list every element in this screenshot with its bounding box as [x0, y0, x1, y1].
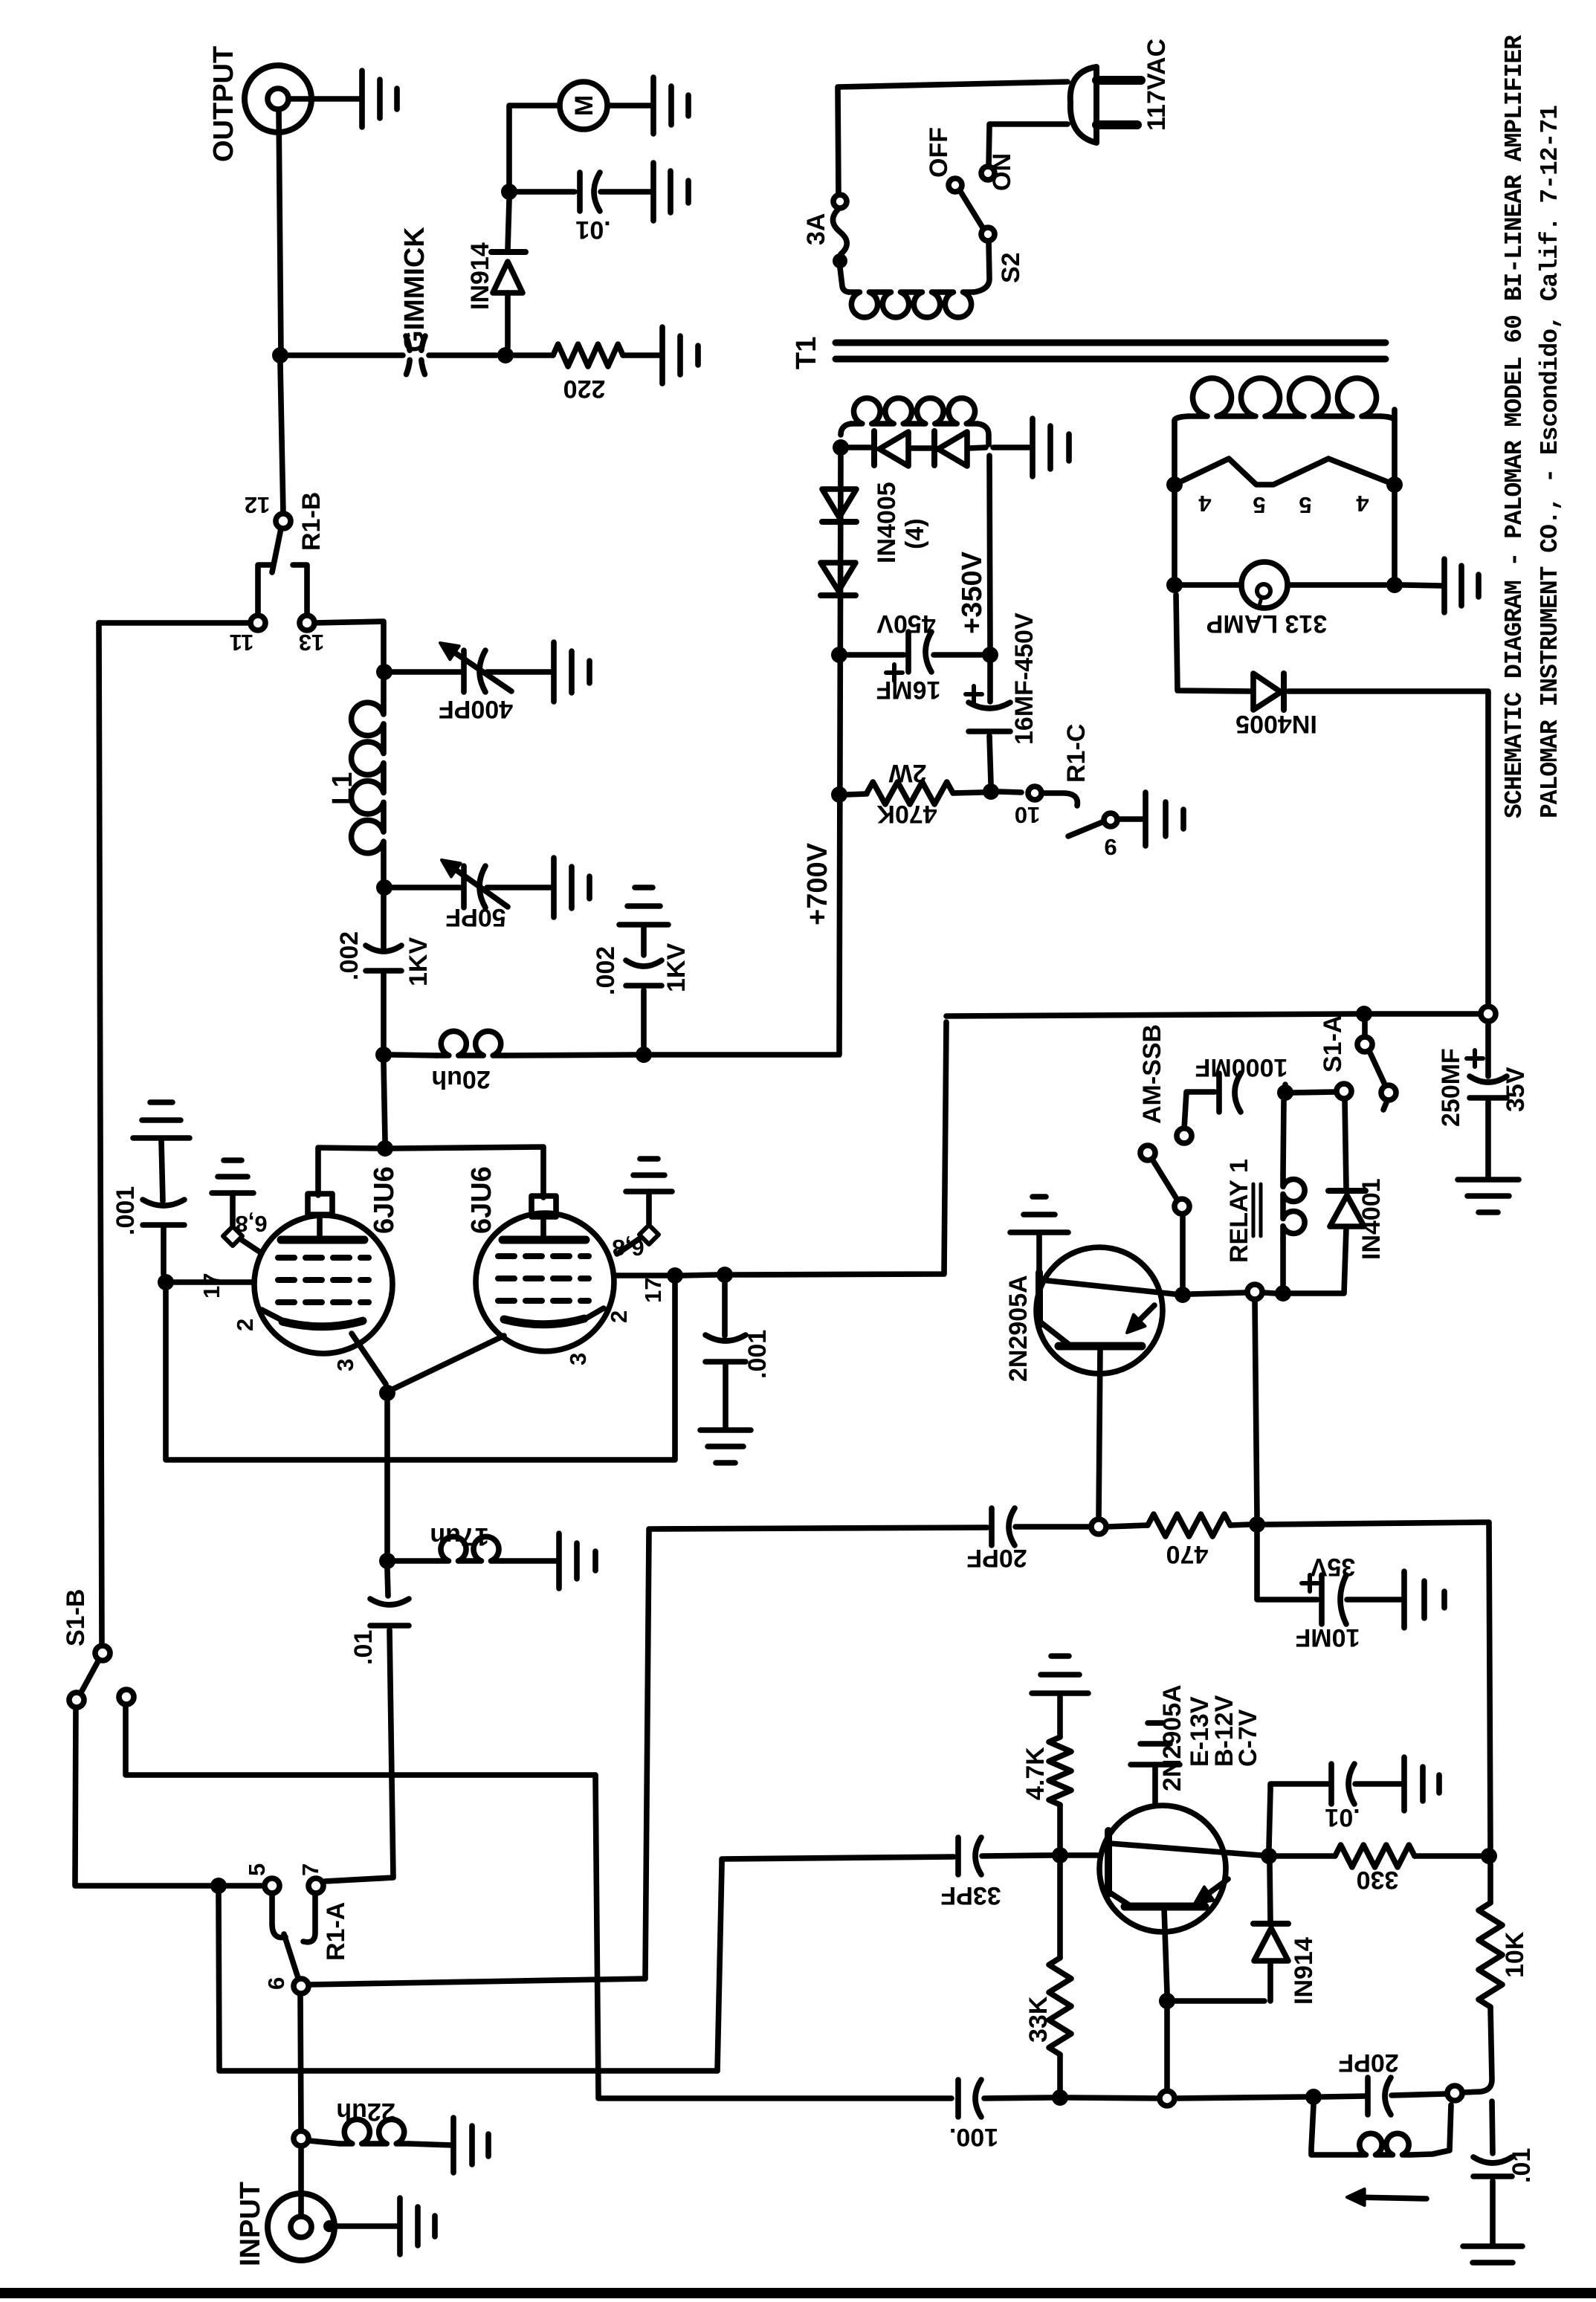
capacitor .002 1KV (right)	[626, 983, 662, 989]
wire node P to Q2 collector circle	[1068, 2098, 1158, 2098]
node D junction	[376, 664, 392, 680]
svg-text:470: 470	[1166, 1540, 1209, 1568]
diode IN4005 D3	[822, 489, 856, 517]
svg-text:7: 7	[297, 1863, 323, 1876]
connector 117VAC plug	[1070, 67, 1096, 143]
Q2 base bar	[1105, 1831, 1112, 1894]
svg-text:1KV: 1KV	[662, 943, 691, 992]
svg-text:+700V: +700V	[802, 842, 833, 925]
lamp 313	[1241, 562, 1288, 608]
wire contact 11 to left rail	[99, 620, 251, 626]
Q2 emitter	[1110, 1843, 1261, 1855]
wire INPUT jack shell to ground	[334, 2223, 398, 2229]
svg-text:IN914: IN914	[1290, 1937, 1318, 2005]
wire node G up to .002 right cap	[641, 990, 647, 1047]
wire node C up to meter corner	[509, 106, 558, 184]
capacitor .001 (left)	[143, 1222, 184, 1228]
wire node AC to S1-A throw (already) and node AB down	[1282, 1084, 1288, 1093]
node AG junction (cap1 row left)	[831, 647, 847, 663]
wire 17uh to ground	[503, 1558, 558, 1564]
heater winding nodes	[1166, 476, 1183, 493]
svg-text:33K: 33K	[1024, 1996, 1053, 2043]
svg-text:2: 2	[232, 1319, 258, 1331]
wire AM-SSB lower contact to node Z	[1180, 1215, 1186, 1287]
meter M1	[560, 82, 607, 129]
wire 20PF bottom to node S	[1392, 2094, 1445, 2095]
switch R1-B lever	[272, 528, 281, 572]
switch S1-A throw contact	[1337, 1084, 1351, 1099]
node L junction (cathodes)	[379, 1385, 395, 1401]
wire 33PF to node T	[982, 1855, 1052, 1856]
svg-text:10K: 10K	[1501, 1931, 1529, 1978]
svg-text:9: 9	[1104, 834, 1117, 860]
svg-text:35V: 35V	[1310, 1553, 1355, 1581]
capacitor 250MF 35V	[1485, 1022, 1491, 1076]
svg-text:.001: .001	[112, 1186, 140, 1235]
switch R1-A contact 6	[294, 1979, 308, 1994]
wire S1-B NC contact down and right (to bottom rail)	[126, 1704, 595, 1775]
node Z junction (Q1 emitter rail)	[1175, 1287, 1191, 1303]
node T junction (Q2 base)	[1052, 1847, 1068, 1863]
capacitor 1000MF	[1216, 1073, 1222, 1112]
switch S2 ON contact	[981, 166, 995, 180]
switch R1-A contact 7 stem	[303, 1894, 315, 1942]
tube V1 cathode	[282, 1321, 363, 1327]
svg-text:R1-A: R1-A	[322, 1902, 350, 1961]
ground at .01 bottom	[1463, 2246, 1522, 2263]
wire +350V riser	[989, 456, 990, 647]
T1 HV secondary coil	[841, 424, 851, 435]
wire node S down to .01 bottom cap	[1492, 2101, 1493, 2153]
wire bottom-left rail down to ground rail	[595, 1775, 952, 2098]
wire 250MF to ground	[1485, 1102, 1491, 1177]
resistor 4.7K	[1049, 1737, 1071, 1805]
svg-text:ON: ON	[988, 153, 1016, 191]
relay core lines	[1253, 1184, 1261, 1236]
svg-text:.002: .002	[335, 931, 364, 980]
wire contact 6 down to input node	[300, 1994, 301, 2130]
node G junction	[636, 1047, 652, 1063]
node F junction	[375, 1047, 392, 1063]
inductor 17uh	[437, 1536, 503, 1561]
tube V2 pin 2 stub	[584, 1308, 604, 1319]
wire node E down to .002 cap	[381, 896, 387, 949]
inductor 20uh	[436, 1031, 505, 1055]
tube V1 plate	[281, 1236, 364, 1244]
svg-text:5: 5	[1299, 492, 1311, 518]
capacitor .01 (cathode)	[370, 1623, 409, 1629]
node AI junction (470K right)	[983, 783, 999, 800]
variable inductor (tank coil)	[1311, 2105, 1357, 2155]
svg-text:GIMMICK: GIMMICK	[399, 227, 430, 352]
node K junction	[717, 1267, 733, 1283]
wire 330 to node W	[1415, 1853, 1481, 1859]
svg-text:IN914: IN914	[466, 242, 494, 310]
wire heater right vertical	[1392, 410, 1398, 577]
ground at 400PF	[554, 642, 589, 702]
wire meter to ground	[608, 103, 653, 109]
svg-text:R1-C: R1-C	[1062, 724, 1091, 783]
capacitor .002 1KV (left)	[366, 968, 401, 974]
svg-text:3: 3	[332, 1359, 358, 1371]
ground at meter	[653, 77, 688, 134]
switch S1-B thrown contact	[69, 1692, 84, 1707]
capacitor 20PF (Q1 collector)	[989, 1508, 995, 1545]
capacitor .001 (right)	[705, 1359, 746, 1365]
node O input tee	[294, 2131, 308, 2146]
wire .002 right to ground	[641, 926, 647, 955]
switch AM-SSB upper contact	[1177, 1128, 1192, 1143]
tube V2 cathode	[504, 1319, 584, 1325]
svg-text:4: 4	[1198, 491, 1212, 517]
ground at 10MF	[1404, 1571, 1444, 1628]
switch S2 lever	[960, 190, 983, 229]
Q1 emitter	[1041, 1280, 1175, 1294]
capacitor 16MF 450V (first)	[905, 632, 911, 672]
switch R1-B contact 11 stem	[258, 565, 272, 615]
capacitor .01 (Q2 emitter)	[1328, 1764, 1334, 1804]
wire OUTPUT jack to ground	[288, 96, 361, 102]
tube V2 grids	[498, 1256, 589, 1301]
scan edge at bottom	[0, 2288, 1596, 2298]
svg-text:OFF: OFF	[925, 127, 953, 178]
svg-text:R1-B: R1-B	[297, 492, 326, 551]
wire .001 to ground	[161, 1140, 163, 1201]
svg-text:17: 17	[640, 1278, 666, 1303]
wire node D to 400PF	[392, 669, 462, 675]
diode IN4005 D1	[871, 431, 877, 465]
wire heater left vertical	[1172, 421, 1177, 577]
capacitor 33PF	[955, 1837, 961, 1875]
switch S1-A pole	[1381, 1085, 1396, 1100]
wire node V to 330	[1277, 1853, 1335, 1859]
svg-text:M: M	[570, 95, 598, 116]
wire .001 right to ground	[723, 1365, 728, 1429]
svg-text:17: 17	[198, 1273, 224, 1299]
svg-text:SCHEMATIC DIAGRAM - PALOMAR MO: SCHEMATIC DIAGRAM - PALOMAR MODEL 60 BI-…	[1501, 35, 1528, 818]
wire V1 grid pin 17	[174, 1279, 254, 1285]
node AD junction (S1-A common)	[1356, 1006, 1372, 1022]
diode IN4005 D2	[931, 431, 937, 465]
node X open (Q1 collector)	[1091, 1519, 1106, 1534]
capacitor .01 (meter)	[577, 172, 583, 211]
wire 10K down to node S	[1464, 2007, 1492, 2092]
node AC junction (relay top)	[1277, 1084, 1293, 1101]
svg-text:3: 3	[565, 1353, 591, 1365]
wire 470 to node Y	[1230, 1525, 1249, 1525]
wire node J to node K	[683, 1275, 717, 1276]
switch R1-B contact 13 stem	[293, 565, 307, 615]
svg-text:4: 4	[1356, 491, 1369, 517]
svg-text:100.: 100.	[949, 2123, 998, 2151]
Q2 emitter arrow	[1200, 1879, 1228, 1900]
capacitor .01 (bottom right)	[1473, 2173, 1512, 2179]
switch R1-C contact 10	[1028, 786, 1041, 800]
node AE open (250MF node)	[1481, 1006, 1496, 1021]
resistor 33K	[1049, 1958, 1071, 2054]
svg-text:(4): (4)	[901, 518, 929, 549]
switch R1-A contact 5	[265, 1878, 280, 1893]
svg-text:PALOMAR INSTRUMENT CO., - Esco: PALOMAR INSTRUMENT CO., - Escondido, Cal…	[1537, 106, 1564, 818]
svg-text:IN4005: IN4005	[1235, 710, 1317, 738]
connector J2 OUTPUT jack	[245, 65, 311, 132]
svg-text:IN4001: IN4001	[1357, 1178, 1386, 1260]
svg-text:6JU6: 6JU6	[369, 1166, 400, 1234]
wire node Y right and down to node W	[1265, 1522, 1490, 1848]
heater winding coil	[1175, 416, 1188, 421]
svg-text:INPUT: INPUT	[235, 2182, 266, 2266]
inductor L1	[352, 699, 384, 856]
node AA open (rail to 470)	[1247, 1284, 1262, 1299]
svg-text:5: 5	[244, 1863, 270, 1876]
node P junction (33K bottom)	[1052, 2089, 1068, 2106]
svg-text:.01: .01	[1508, 2148, 1536, 2183]
wire 50PF to ground	[487, 885, 553, 890]
transformer T1 core	[836, 340, 1386, 346]
svg-text:11: 11	[230, 630, 254, 656]
switch AM-SSB lever	[1151, 1158, 1177, 1199]
ground at 22uh	[453, 2118, 488, 2173]
heater resistance wire 4-5-5-4	[1175, 459, 1395, 485]
wire contact 6 right to amplifier	[309, 1979, 645, 1985]
wire up to 20PF line	[645, 1527, 987, 1979]
capacitor 100 (bottom rail)	[955, 2080, 961, 2117]
wire node H to tube V1 plate cap	[318, 1148, 377, 1195]
node S open (tank right)	[1447, 2086, 1462, 2101]
node M junction	[379, 1553, 395, 1569]
svg-text:16MF: 16MF	[876, 676, 941, 704]
wire node Y up to relay rail	[1255, 1300, 1257, 1516]
capacitor 16MF-450V (second)	[987, 663, 993, 702]
switch R1-B contact 12	[276, 514, 291, 528]
svg-text:1000MF: 1000MF	[1195, 1053, 1288, 1082]
node A junction	[272, 347, 288, 363]
switch S1-A common contact	[1357, 1037, 1372, 1052]
transistor Q1 2N2905A	[1036, 1247, 1163, 1374]
wire node C to .01 cap	[517, 189, 575, 195]
wire ON contact to plug	[989, 124, 1067, 166]
wire 100 cap to node P	[984, 2098, 1052, 2098]
svg-text:S2: S2	[997, 252, 1025, 283]
tube V1 pin 2 stub	[262, 1310, 283, 1321]
switch S2 OFF contact	[949, 178, 962, 192]
wire 22uh to ground	[409, 2144, 452, 2145]
wire 10MF to ground	[1347, 1597, 1402, 1603]
tube V2 6JU6 envelope	[476, 1213, 614, 1351]
ground at 17uh	[559, 1533, 595, 1588]
svg-text:330: 330	[1357, 1866, 1399, 1894]
svg-text:S1-B: S1-B	[62, 1589, 90, 1646]
svg-text:250MF: 250MF	[1437, 1048, 1465, 1127]
ground at OUTPUT jack	[362, 71, 397, 127]
ground at V2 heater	[626, 1159, 672, 1192]
INPUT jack shell tab	[323, 2220, 335, 2232]
wire node N to contact 5	[227, 1883, 264, 1889]
wire node A down to R1-B	[280, 363, 283, 514]
switch R1-A lever	[284, 1934, 298, 1978]
wire lamp row to ground	[1403, 585, 1442, 586]
wire node A to gimmick	[288, 352, 403, 358]
wire node B to 220 resistor	[514, 352, 553, 358]
wire 220 to ground	[623, 352, 662, 358]
ground above 4.7K	[1032, 1656, 1088, 1693]
svg-text:.01: .01	[1325, 1803, 1360, 1831]
wire node U to IN914 bottom	[1175, 1962, 1270, 2001]
switch S2 contact	[981, 227, 995, 241]
resistor 470	[1148, 1514, 1230, 1536]
wire left rail down to S1-B	[99, 623, 102, 1646]
ground at INPUT jack	[400, 2198, 435, 2254]
switch S1-B common contact	[95, 1646, 110, 1661]
node Q open (Q2 collector on rail)	[1160, 2091, 1175, 2106]
node V junction (Q2 emitter)	[1261, 1848, 1277, 1864]
wire .002 down to node F	[381, 974, 387, 1047]
node AJ junction (470K left)	[831, 786, 847, 803]
switch S1-B NC contact	[119, 1690, 134, 1704]
resistor 220	[553, 344, 623, 366]
node U junction (Q2 collector tie)	[1159, 1993, 1175, 2009]
wire HV right end to ground	[993, 444, 1030, 450]
Q1 base bar	[1036, 1273, 1043, 1325]
wire node E to 50PF	[392, 885, 462, 890]
wire .01 cap to ground	[601, 189, 653, 195]
svg-text:.001: .001	[743, 1330, 772, 1379]
svg-text:50PF: 50PF	[445, 903, 505, 931]
svg-text:T1: T1	[791, 337, 822, 369]
svg-text:C-7V: C-7V	[1234, 1709, 1262, 1767]
wire bus to 250MF corner	[1372, 1011, 1480, 1017]
variable capacitor 400PF	[461, 650, 467, 692]
variable capacitor 50PF	[461, 866, 467, 908]
svg-text:5: 5	[1253, 492, 1265, 518]
node C junction	[501, 184, 517, 200]
svg-text:20uh: 20uh	[431, 1065, 490, 1093]
transistor Q2 2N2905A	[1099, 1805, 1226, 1932]
svg-text:1KV: 1KV	[404, 937, 433, 986]
svg-text:OUTPUT: OUTPUT	[208, 46, 239, 162]
svg-text:470K: 470K	[876, 800, 937, 828]
svg-text:4.7K: 4.7K	[1021, 1747, 1050, 1800]
arrow variable inductor	[1354, 2197, 1427, 2199]
switch R1-B contact 13	[300, 615, 314, 630]
wire node G to +700V rail corner	[652, 1052, 837, 1058]
ground at lamp row	[1444, 559, 1479, 612]
svg-text:117VAC: 117VAC	[1143, 39, 1171, 131]
wire node F down to plate node H	[384, 1063, 385, 1140]
relay coil	[1283, 1101, 1284, 1174]
wire rail AB to IN4001	[1291, 1228, 1346, 1293]
wire node K right to RF choke corner	[733, 1022, 946, 1275]
wire lower bus up to 33PF line	[717, 1857, 954, 2071]
wire 20PF to Q1 collector node	[1015, 1524, 1091, 1530]
wire fuse up to line	[838, 82, 1067, 195]
inductor 22uh	[340, 2119, 409, 2144]
tube V1 6JU6 envelope	[254, 1215, 392, 1354]
rectifier row wire	[849, 447, 986, 448]
svg-text:20PF: 20PF	[966, 1544, 1027, 1572]
capacitor 20PF (bottom)	[1365, 2078, 1371, 2115]
wire .01 down to R1-A contact 7	[325, 1630, 393, 1881]
svg-text:2W: 2W	[888, 759, 927, 787]
svg-text:RELAY 1: RELAY 1	[1225, 1159, 1253, 1263]
node Y junction	[1249, 1516, 1265, 1533]
ground at .01 cap	[653, 163, 688, 221]
ground below .001 right	[700, 1430, 751, 1463]
ground above .002 right	[619, 888, 668, 925]
node AF junction (HV top left)	[833, 439, 849, 456]
diode IN4005 (lamp feed)	[1253, 673, 1281, 710]
node 6,8 diamond V2	[639, 1225, 659, 1244]
svg-text:20PF: 20PF	[1338, 2049, 1398, 2077]
wire input node down to INPUT jack	[298, 2147, 304, 2215]
switch AM-SSB pole	[1140, 1145, 1155, 1160]
wire node M down to .01 cap	[387, 1569, 388, 1596]
+700V rail	[839, 456, 841, 1055]
wire 400PF to ground	[487, 669, 553, 675]
wire input node to 22uh	[309, 2141, 340, 2144]
wire contact 13 to tank node D	[314, 621, 384, 664]
wire node T to Q2 base	[1068, 1852, 1101, 1858]
wire cap2 to node AI	[989, 736, 991, 783]
switch R1-B contact 11	[251, 615, 265, 630]
svg-text:400PF: 400PF	[439, 695, 513, 723]
switch R1-C lever	[1068, 822, 1102, 836]
diode IN914 (output sampling)	[505, 293, 511, 347]
node I junction (V1 grid)	[158, 1274, 174, 1290]
wire R1-C bracket	[1042, 793, 1077, 806]
Q1 collector	[1041, 1322, 1068, 1344]
svg-text:.002: .002	[592, 946, 620, 995]
diode IN4005 D4	[821, 563, 856, 591]
tube V2 top cap	[532, 1196, 556, 1217]
svg-text:6JU6: 6JU6	[466, 1166, 497, 1234]
resistor 330	[1335, 1845, 1415, 1867]
switch R1-A contact 5 stem	[272, 1894, 285, 1938]
svg-text:16MF-450V: 16MF-450V	[1010, 612, 1038, 745]
switch AM-SSB lower contact	[1175, 1199, 1189, 1214]
lamp row left node	[1166, 577, 1183, 593]
wire cathodes V1 V2 to node L	[352, 1333, 504, 1391]
Q1 emitter arrow	[1131, 1305, 1154, 1328]
node H junction (tube plates)	[377, 1140, 393, 1157]
T1 primary coil	[840, 268, 849, 292]
tube V1 grids	[278, 1258, 369, 1302]
wire .01 Q2 to ground	[1355, 1781, 1402, 1787]
switch R1-C contact 9	[1104, 813, 1117, 827]
switch S1-B lever	[80, 1660, 99, 1694]
svg-text:+350V: +350V	[957, 551, 988, 634]
svg-text:.01: .01	[349, 1630, 378, 1665]
ground at HV winding	[1033, 418, 1069, 476]
wire node M to 17uh	[395, 1558, 437, 1564]
node J junction (V2 grid)	[667, 1267, 683, 1284]
switch S1-A lever	[1369, 1051, 1384, 1083]
wire node L down to node M	[384, 1401, 390, 1553]
node AH junction (+350V node)	[982, 647, 998, 663]
fuse 3A	[833, 195, 847, 208]
ground at R1-C	[1146, 792, 1183, 846]
wire node K down to .001 right	[722, 1283, 728, 1336]
svg-text:450V: 450V	[876, 610, 936, 638]
wire cap1 row	[847, 652, 982, 658]
wire node I up to .001 cap	[161, 1228, 167, 1274]
ground above Q1 base	[1010, 1197, 1068, 1232]
ground at 220	[662, 327, 698, 384]
ground at 250MF	[1458, 1180, 1519, 1212]
wire node Y down to 10MF	[1257, 1533, 1317, 1600]
svg-text:22uh: 22uh	[336, 2098, 395, 2126]
diode IN4001	[1330, 1195, 1364, 1226]
